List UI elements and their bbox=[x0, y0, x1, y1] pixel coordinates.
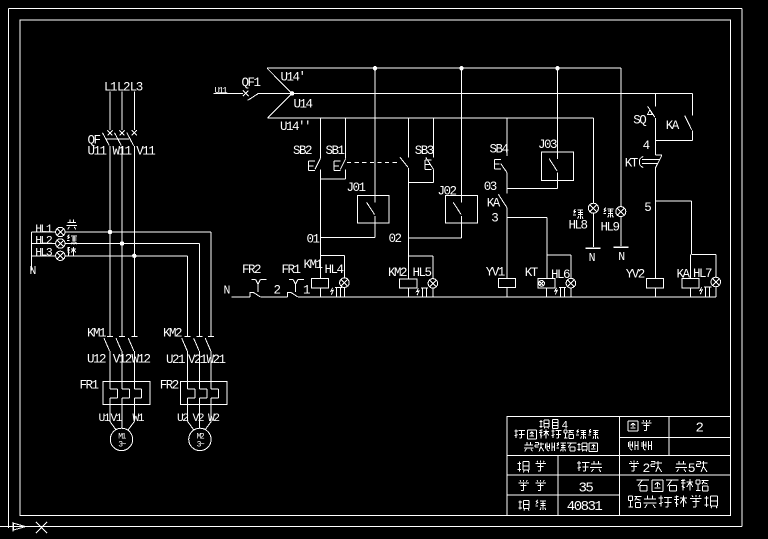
wire O2 to KM2 coil bbox=[408, 238, 410, 279]
svg-text:N: N bbox=[224, 284, 230, 297]
coil KM1 label bbox=[304, 258, 323, 272]
wire lamp row 1 bbox=[31, 231, 211, 233]
svg-text:FR2: FR2 bbox=[242, 263, 261, 277]
svg-text:HL4: HL4 bbox=[325, 263, 344, 277]
title text 2 bbox=[696, 421, 704, 437]
thermal contact FR2 bbox=[250, 280, 266, 297]
coil KM1 bbox=[312, 279, 329, 297]
svg-text:SQ: SQ bbox=[633, 114, 646, 128]
svg-text:FR1: FR1 bbox=[80, 379, 99, 393]
symbol earth KA bbox=[700, 287, 711, 297]
coil YV1 label bbox=[486, 266, 505, 280]
svg-text:2: 2 bbox=[643, 461, 650, 476]
limit switch SQ label bbox=[633, 114, 646, 128]
plot mark triangle bbox=[13, 522, 26, 532]
thermal contact FR1 label bbox=[282, 263, 301, 277]
node O2 label bbox=[389, 232, 402, 246]
wire KA rejoin bbox=[656, 140, 693, 142]
wire SB3 join bbox=[409, 181, 434, 183]
svg-text:U1: U1 bbox=[99, 413, 111, 425]
relay contact J01 label bbox=[347, 181, 366, 195]
svg-text:HL3: HL3 bbox=[35, 248, 53, 260]
contactor KM2 label bbox=[163, 326, 182, 340]
svg-text:U14: U14 bbox=[294, 98, 313, 112]
plot mark X bbox=[36, 522, 47, 533]
label yellow bbox=[67, 220, 77, 230]
svg-text:KM1: KM1 bbox=[304, 258, 323, 272]
svg-text:J03: J03 bbox=[538, 138, 557, 152]
wire node 3 bbox=[507, 217, 547, 219]
net label V21 bbox=[188, 353, 207, 367]
svg-text:YV2: YV2 bbox=[626, 268, 645, 282]
contactor KM2 pole 1 bbox=[182, 337, 191, 382]
net label V12 bbox=[113, 353, 132, 367]
svg-text:W12: W12 bbox=[132, 353, 151, 367]
wire HL8 drop bbox=[592, 118, 594, 203]
wire node 5 over bbox=[656, 201, 692, 255]
svg-text:HL9: HL9 bbox=[601, 221, 620, 235]
title text 35 bbox=[579, 480, 594, 496]
lamp HL9 bbox=[616, 207, 626, 246]
svg-text:U11: U11 bbox=[215, 86, 228, 96]
svg-text:5: 5 bbox=[644, 201, 651, 215]
lamp HL5 bbox=[428, 279, 438, 297]
breaker QF pole 1 contact bbox=[103, 130, 113, 145]
svg-text:40831: 40831 bbox=[567, 499, 603, 515]
button SB1 bbox=[334, 118, 346, 179]
relay contact J03 bbox=[542, 68, 574, 188]
svg-text:SB1: SB1 bbox=[326, 144, 345, 158]
lamp HL4 label bbox=[325, 263, 344, 277]
svg-text:3: 3 bbox=[491, 212, 498, 226]
svg-text:35: 35 bbox=[579, 480, 594, 496]
wire L3 drop bbox=[133, 92, 135, 131]
bus U14 wire bbox=[292, 93, 692, 95]
wire HL9 drop bbox=[620, 68, 622, 206]
lamp HL1 bbox=[56, 227, 65, 236]
wire QF1 to node bbox=[259, 93, 292, 95]
lamp HL6 bbox=[566, 278, 576, 296]
symbol earth KM2 bbox=[417, 288, 428, 297]
wire HL4 tap bbox=[320, 256, 344, 278]
svg-text:KA: KA bbox=[677, 268, 691, 282]
junction dot J03 tap bbox=[555, 66, 559, 70]
title text school1 bbox=[637, 479, 709, 491]
svg-text:V21: V21 bbox=[188, 353, 207, 367]
net label U21 bbox=[166, 353, 185, 367]
thermal relay FR2 label bbox=[160, 379, 179, 393]
svg-text:N: N bbox=[589, 252, 595, 265]
thermal contact FR1 bbox=[288, 280, 304, 297]
wire phase U11 bbox=[109, 146, 111, 337]
svg-text:V11: V11 bbox=[136, 144, 155, 158]
lamp HL1 label bbox=[35, 224, 53, 236]
wire node O3 bbox=[507, 187, 558, 189]
svg-text:L1: L1 bbox=[104, 81, 117, 95]
title text scale bbox=[628, 441, 651, 450]
svg-text:J01: J01 bbox=[347, 181, 366, 195]
button SB4 bbox=[495, 118, 507, 193]
wire YV1 drop bbox=[506, 218, 508, 279]
net label V11 bbox=[136, 144, 155, 158]
lamp HL5 label bbox=[413, 266, 432, 280]
title block grid bbox=[507, 416, 731, 515]
button SB2 bbox=[309, 118, 321, 238]
lamp HL8 label bbox=[569, 219, 588, 233]
lamp HL3 label bbox=[35, 248, 53, 260]
net label N left bbox=[30, 265, 36, 278]
bus N rail bbox=[232, 296, 716, 298]
svg-text:HL8: HL8 bbox=[569, 219, 588, 233]
svg-text:SB3: SB3 bbox=[415, 144, 434, 158]
net label W11 bbox=[113, 144, 132, 158]
svg-text:4: 4 bbox=[643, 139, 650, 153]
net label U12 bbox=[87, 353, 106, 367]
svg-text:FR2: FR2 bbox=[160, 379, 179, 393]
svg-text:HL2: HL2 bbox=[35, 235, 53, 247]
contactor KM1 label bbox=[87, 326, 106, 340]
svg-text:KT: KT bbox=[625, 156, 639, 170]
svg-text:FR1: FR1 bbox=[282, 263, 301, 277]
lamp HL2 label bbox=[35, 235, 53, 247]
motor M2 leads bbox=[188, 404, 212, 430]
node 1 label bbox=[303, 283, 310, 297]
lamp HL3 bbox=[56, 251, 65, 260]
motor M2 bbox=[189, 428, 211, 450]
net label W2 bbox=[208, 413, 219, 425]
label green HL8 bbox=[573, 209, 583, 219]
breaker QF1 bbox=[243, 91, 259, 101]
wire KM2 feed 3 bbox=[187, 256, 189, 337]
symbol earth KT bbox=[555, 288, 566, 297]
motor M1 leads bbox=[110, 404, 134, 430]
title text liubing bbox=[577, 461, 602, 472]
svg-text:HL7: HL7 bbox=[693, 267, 712, 281]
breaker QF pole 3 contact bbox=[127, 130, 137, 145]
breaker QF linkage bbox=[106, 138, 130, 140]
junction dot J02 tap bbox=[459, 66, 463, 70]
svg-text:V2: V2 bbox=[193, 413, 204, 425]
junction dot L3 tap bbox=[132, 254, 136, 258]
limit switch SQ bbox=[648, 94, 656, 141]
wire O1 to KM1 coil bbox=[319, 238, 321, 279]
lamp HL7 label bbox=[693, 267, 712, 281]
button SB3 bbox=[425, 118, 434, 182]
net label U14p bbox=[281, 70, 305, 84]
svg-text:01: 01 bbox=[307, 232, 320, 246]
contactor KM1 pole 3 bbox=[128, 337, 137, 382]
coil KM2 bbox=[400, 279, 417, 297]
node 3 label bbox=[491, 212, 498, 226]
lamp HL7 bbox=[711, 277, 721, 297]
title text drawing no bbox=[628, 420, 652, 431]
node L3 label bbox=[130, 81, 143, 95]
svg-text:KA: KA bbox=[666, 119, 680, 133]
symbol earth KM1 bbox=[331, 288, 342, 297]
wire U14 to KA contact bbox=[691, 94, 693, 116]
title text school2 bbox=[629, 495, 718, 508]
wire phase V11 bbox=[133, 146, 135, 337]
svg-text:SB2: SB2 bbox=[293, 144, 312, 158]
relay contact KA top label bbox=[666, 119, 680, 133]
coil KA bbox=[682, 279, 699, 297]
motor M1 bbox=[110, 428, 132, 450]
wire HL5 tap bbox=[409, 256, 433, 279]
wire KM2 feed 1 bbox=[210, 232, 212, 337]
svg-text:N: N bbox=[30, 265, 36, 278]
svg-text:U2: U2 bbox=[177, 413, 188, 425]
thermal relay FR2 bbox=[181, 382, 227, 405]
svg-text:SB4: SB4 bbox=[490, 143, 509, 157]
title text student no bbox=[519, 480, 546, 491]
bus U14pp bbox=[268, 117, 594, 119]
net label W21 bbox=[207, 353, 226, 367]
wire fan to U14p bbox=[267, 68, 292, 93]
coil KM2 label bbox=[388, 266, 407, 280]
lamp HL6 label bbox=[551, 268, 570, 282]
net label W12 bbox=[132, 353, 151, 367]
net label U1 bbox=[99, 413, 111, 425]
node 5 label bbox=[644, 201, 651, 215]
title text name bbox=[518, 461, 546, 473]
net label V2 bbox=[193, 413, 204, 425]
lamp HL8 bbox=[588, 203, 598, 247]
coil KA label bbox=[677, 268, 691, 282]
wire L2 drop bbox=[121, 92, 123, 131]
coil YV1 bbox=[499, 279, 516, 297]
wire KT drop bbox=[546, 218, 548, 279]
node O3 label bbox=[484, 180, 497, 194]
thermal relay FR1 label bbox=[80, 379, 99, 393]
svg-text:QF1: QF1 bbox=[242, 76, 261, 90]
net label N rail bbox=[224, 284, 230, 297]
breaker QF label bbox=[88, 134, 101, 148]
svg-text:KA: KA bbox=[487, 197, 501, 211]
net label U11 bbox=[88, 144, 107, 158]
contactor KM1 pole 1 bbox=[104, 337, 113, 382]
coil KT label bbox=[525, 266, 539, 280]
svg-text:KT: KT bbox=[525, 266, 539, 280]
title text class bbox=[518, 500, 546, 511]
bus U14p bbox=[267, 67, 621, 69]
wire HL6 tap bbox=[547, 255, 571, 278]
net label V1 bbox=[111, 413, 123, 425]
coil YV2 label bbox=[626, 268, 645, 282]
svg-text:03: 03 bbox=[484, 180, 497, 194]
lamp HL2 bbox=[56, 239, 65, 248]
title text 40831 bbox=[567, 499, 603, 515]
net label W1 bbox=[133, 413, 145, 425]
label green bbox=[67, 235, 77, 245]
svg-text:L3: L3 bbox=[130, 81, 143, 95]
wire fan to U14pp bbox=[268, 94, 293, 118]
wire phase W11 bbox=[121, 146, 123, 337]
svg-text:YV1: YV1 bbox=[486, 266, 505, 280]
node 2 label bbox=[274, 283, 281, 297]
junction dot J01 tap bbox=[373, 66, 377, 70]
wire N drop left bbox=[30, 232, 32, 271]
relay contact J01 bbox=[357, 68, 389, 237]
svg-text:02: 02 bbox=[389, 232, 402, 246]
svg-text:U12: U12 bbox=[87, 353, 106, 367]
button SB3 label bbox=[415, 144, 434, 158]
lamp HL9 label bbox=[601, 221, 620, 235]
terminal N HL8 bbox=[586, 248, 601, 265]
wire node O2 bbox=[409, 237, 462, 239]
node O1 label bbox=[307, 232, 320, 246]
relay contact KA label bbox=[487, 197, 501, 211]
breaker QF1 label bbox=[242, 76, 261, 90]
title text project bbox=[540, 420, 569, 433]
button SB4 label bbox=[490, 143, 509, 157]
svg-text:J02: J02 bbox=[438, 185, 457, 199]
terminal N HL9 bbox=[614, 247, 629, 264]
net label U14 bbox=[294, 98, 313, 112]
svg-text:KM2: KM2 bbox=[163, 326, 182, 340]
svg-text:N: N bbox=[618, 251, 624, 264]
wire KM2 feed 2 bbox=[199, 244, 201, 337]
thermal contact FR2 label bbox=[242, 263, 261, 277]
relay contact J03 label bbox=[538, 138, 557, 152]
wire lamp row 3 bbox=[31, 255, 187, 257]
linkage dashed SB1-SB3 bbox=[347, 162, 399, 164]
coil YV2 bbox=[646, 279, 663, 297]
net label U11 control bbox=[215, 86, 228, 96]
svg-text:V12: V12 bbox=[113, 353, 132, 367]
relay contact KA mid bbox=[498, 194, 507, 217]
node 4 label bbox=[643, 139, 650, 153]
wire L1 drop bbox=[109, 92, 111, 131]
relay contact J02 label bbox=[438, 185, 457, 199]
junction dot L2 tap bbox=[120, 241, 124, 245]
svg-text:U21: U21 bbox=[166, 353, 185, 367]
wire SB1 join bbox=[320, 178, 345, 180]
title text sheet bbox=[629, 461, 707, 476]
node L2 label bbox=[117, 81, 130, 95]
label green HL9 bbox=[603, 208, 613, 218]
svg-text:KM1: KM1 bbox=[87, 326, 106, 340]
timed contact KT label bbox=[625, 156, 639, 170]
svg-text:W21: W21 bbox=[207, 353, 226, 367]
title text line3 bbox=[524, 442, 598, 451]
svg-text:V1: V1 bbox=[111, 413, 123, 425]
svg-text:L2: L2 bbox=[117, 81, 130, 95]
wire U11 stub bbox=[214, 93, 243, 95]
lamp HL4 bbox=[340, 278, 350, 297]
breaker QF pole 2 contact bbox=[115, 130, 125, 145]
button SB3 linked contact bbox=[400, 118, 409, 238]
button SB2 label bbox=[293, 144, 312, 158]
svg-text:1: 1 bbox=[303, 283, 310, 297]
junction node U14 bbox=[290, 91, 295, 96]
svg-text:5: 5 bbox=[688, 461, 695, 476]
wire KA coil feed bbox=[691, 255, 716, 279]
svg-text:HL5: HL5 bbox=[413, 266, 432, 280]
coil KT bbox=[538, 279, 555, 297]
title text line2 bbox=[514, 429, 598, 439]
wire HL7 drop bbox=[715, 255, 717, 278]
contactor KM2 pole 2 bbox=[194, 337, 203, 382]
svg-text:U14': U14' bbox=[281, 70, 305, 84]
svg-text:KM2: KM2 bbox=[388, 266, 407, 280]
relay contact J02 bbox=[446, 68, 478, 238]
svg-text:2: 2 bbox=[274, 283, 281, 297]
timed contact KT bbox=[639, 141, 662, 279]
thermal relay FR1 bbox=[103, 382, 150, 405]
junction dot L1 tap bbox=[108, 230, 112, 234]
contactor KM2 pole 3 bbox=[205, 337, 214, 382]
svg-text:U14'': U14'' bbox=[280, 120, 310, 134]
button SB1 label bbox=[326, 144, 345, 158]
svg-text:HL1: HL1 bbox=[35, 224, 53, 236]
node L1 label bbox=[104, 81, 117, 95]
svg-text:U11: U11 bbox=[88, 144, 107, 158]
net label U2 bbox=[177, 413, 188, 425]
wire lamp row 2 bbox=[31, 243, 199, 245]
net label U14pp bbox=[280, 120, 310, 134]
contactor KM1 pole 2 bbox=[116, 337, 125, 382]
relay contact KA top bbox=[685, 116, 693, 141]
wire node O1 bbox=[320, 237, 375, 239]
label red bbox=[67, 247, 76, 256]
svg-text:2: 2 bbox=[696, 421, 704, 437]
